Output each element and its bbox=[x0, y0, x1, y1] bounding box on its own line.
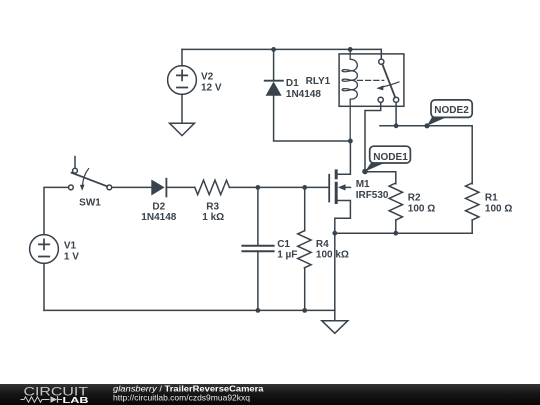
switch SW1 arm bbox=[72, 173, 108, 187]
wire ground rail bottom bbox=[44, 309, 335, 311]
svg-text:V2: V2 bbox=[201, 71, 214, 82]
wire D1 bottom to coil bottom bbox=[274, 96, 351, 141]
wire V1 top to SW1 bbox=[44, 187, 69, 234]
wire relay NC terminal to NODE1 bbox=[365, 102, 381, 171]
svg-text:SW1: SW1 bbox=[79, 198, 101, 209]
wire R1 bottom to rail bbox=[471, 220, 473, 233]
node NODE2 junction dot bbox=[424, 123, 429, 128]
svg-text:R2: R2 bbox=[408, 193, 421, 204]
wire top rail from V2 to relay bbox=[182, 48, 381, 50]
svg-text:D1: D1 bbox=[286, 78, 299, 89]
wire D2 to R3 bbox=[166, 186, 194, 188]
ground bottom bbox=[322, 321, 348, 334]
svg-text:IRF530: IRF530 bbox=[356, 190, 389, 201]
svg-text:NODE2: NODE2 bbox=[434, 105, 469, 116]
wire NODE2 horizontal to R1 bbox=[380, 126, 472, 184]
relay RLY1 switch arm bbox=[382, 64, 395, 97]
node junction dot C1 top bbox=[256, 185, 261, 190]
voltage source V1 bbox=[30, 235, 59, 264]
svg-text:http://circuitlab.com/czds9mua: http://circuitlab.com/czds9mua92kxq bbox=[113, 393, 250, 403]
logo diode bbox=[51, 396, 58, 403]
transistor M1 gate bar bbox=[328, 175, 330, 202]
voltage source V2 bbox=[168, 66, 197, 95]
transistor M1 channel segments bbox=[335, 171, 338, 203]
transistor M1 gate lead bbox=[305, 186, 329, 188]
wire V2 stem top bbox=[181, 49, 183, 66]
switch SW1 left terminal bbox=[69, 185, 74, 190]
transistor M1 body arrow bbox=[344, 186, 350, 188]
switch SW1 right terminal bbox=[107, 185, 112, 190]
wire D1 top lead bbox=[273, 49, 275, 80]
svg-text:100 Ω: 100 Ω bbox=[485, 203, 512, 214]
node junction dot source/rail bbox=[332, 231, 337, 236]
wire C1 top lead bbox=[257, 187, 259, 245]
diode D2 bbox=[151, 180, 164, 196]
switch SW1 upper terminal bbox=[73, 168, 78, 173]
svg-text:M1: M1 bbox=[356, 179, 370, 190]
ground bottom stem bbox=[334, 310, 336, 320]
svg-text:12 V: 12 V bbox=[201, 82, 222, 93]
wire R4 top lead bbox=[304, 187, 306, 230]
svg-text:1N4148: 1N4148 bbox=[141, 212, 176, 223]
relay RLY1 bottom-right terminal bbox=[394, 97, 399, 102]
wire relay NO terminal down bbox=[395, 102, 397, 125]
svg-text:V1: V1 bbox=[64, 240, 77, 251]
wire C1 bottom lead bbox=[257, 251, 259, 310]
svg-text:R4: R4 bbox=[316, 239, 329, 250]
svg-text:R1: R1 bbox=[485, 193, 498, 204]
node B junction dot coil top bbox=[348, 47, 353, 52]
capacitor C1 bbox=[242, 245, 273, 247]
relay RLY1 top pole wire bbox=[380, 49, 382, 59]
switch SW1 actuation arrow bbox=[82, 169, 88, 186]
switch SW1 upper stub bbox=[74, 157, 76, 169]
resistor R3 bbox=[195, 180, 230, 194]
relay RLY1 box bbox=[339, 54, 404, 106]
resistor R2 bbox=[389, 183, 402, 220]
wire R3 to gate with junctions bbox=[229, 186, 304, 188]
node C junction dot coil bottom / drain bbox=[348, 139, 353, 144]
wire R2 bottom bbox=[395, 220, 397, 233]
wire source down to ground rail bbox=[334, 233, 336, 310]
relay RLY1 dashed actuation line bbox=[358, 79, 384, 81]
node NODE1 flag bbox=[365, 163, 386, 172]
relay RLY1 bottom-left terminal bbox=[378, 97, 383, 102]
node NODE2 flag bbox=[427, 117, 448, 126]
wire V1 bottom to rail bbox=[43, 263, 45, 310]
logo resistor bbox=[21, 397, 50, 402]
wire mid rail bbox=[335, 232, 472, 234]
svg-text:LAB: LAB bbox=[63, 395, 89, 405]
svg-text:100 kΩ: 100 kΩ bbox=[316, 250, 349, 261]
svg-text:100 Ω: 100 Ω bbox=[408, 203, 435, 214]
relay RLY1 top pole terminal bbox=[379, 59, 384, 64]
resistor R1 bbox=[466, 183, 479, 220]
svg-text:1 kΩ: 1 kΩ bbox=[202, 212, 224, 223]
relay RLY1 actuation arrow bbox=[381, 82, 399, 87]
wire SW1 to D2 bbox=[112, 186, 152, 188]
svg-text:C1: C1 bbox=[277, 239, 290, 250]
node junction dot R4 top bbox=[302, 185, 307, 190]
node A junction dot D1 top bbox=[271, 47, 276, 52]
svg-text:1 µF: 1 µF bbox=[277, 250, 297, 261]
wire V2 bottom to ground bbox=[181, 94, 183, 123]
node junction dot R4 bottom bbox=[302, 308, 307, 313]
relay RLY1 coil bbox=[342, 49, 357, 141]
svg-text:R3: R3 bbox=[206, 201, 219, 212]
node junction dot R2 bottom bbox=[393, 231, 398, 236]
svg-text:NODE1: NODE1 bbox=[373, 152, 408, 163]
ground under V2 bbox=[170, 123, 195, 135]
diode D1 bbox=[265, 80, 283, 82]
svg-text:1 V: 1 V bbox=[64, 251, 79, 262]
transistor M1 drain lead bbox=[338, 141, 351, 174]
node junction dot relay NO bbox=[394, 123, 399, 128]
svg-text:RLY1: RLY1 bbox=[306, 76, 331, 87]
node junction dot C1 bottom bbox=[256, 308, 261, 313]
wire R4 bottom lead bbox=[304, 268, 306, 311]
resistor R4 bbox=[298, 231, 311, 268]
svg-text:D2: D2 bbox=[152, 201, 165, 212]
svg-text:1N4148: 1N4148 bbox=[286, 89, 321, 100]
transistor M1 source lead bbox=[335, 201, 351, 234]
wire NODE1 to R2 top bbox=[365, 172, 396, 184]
